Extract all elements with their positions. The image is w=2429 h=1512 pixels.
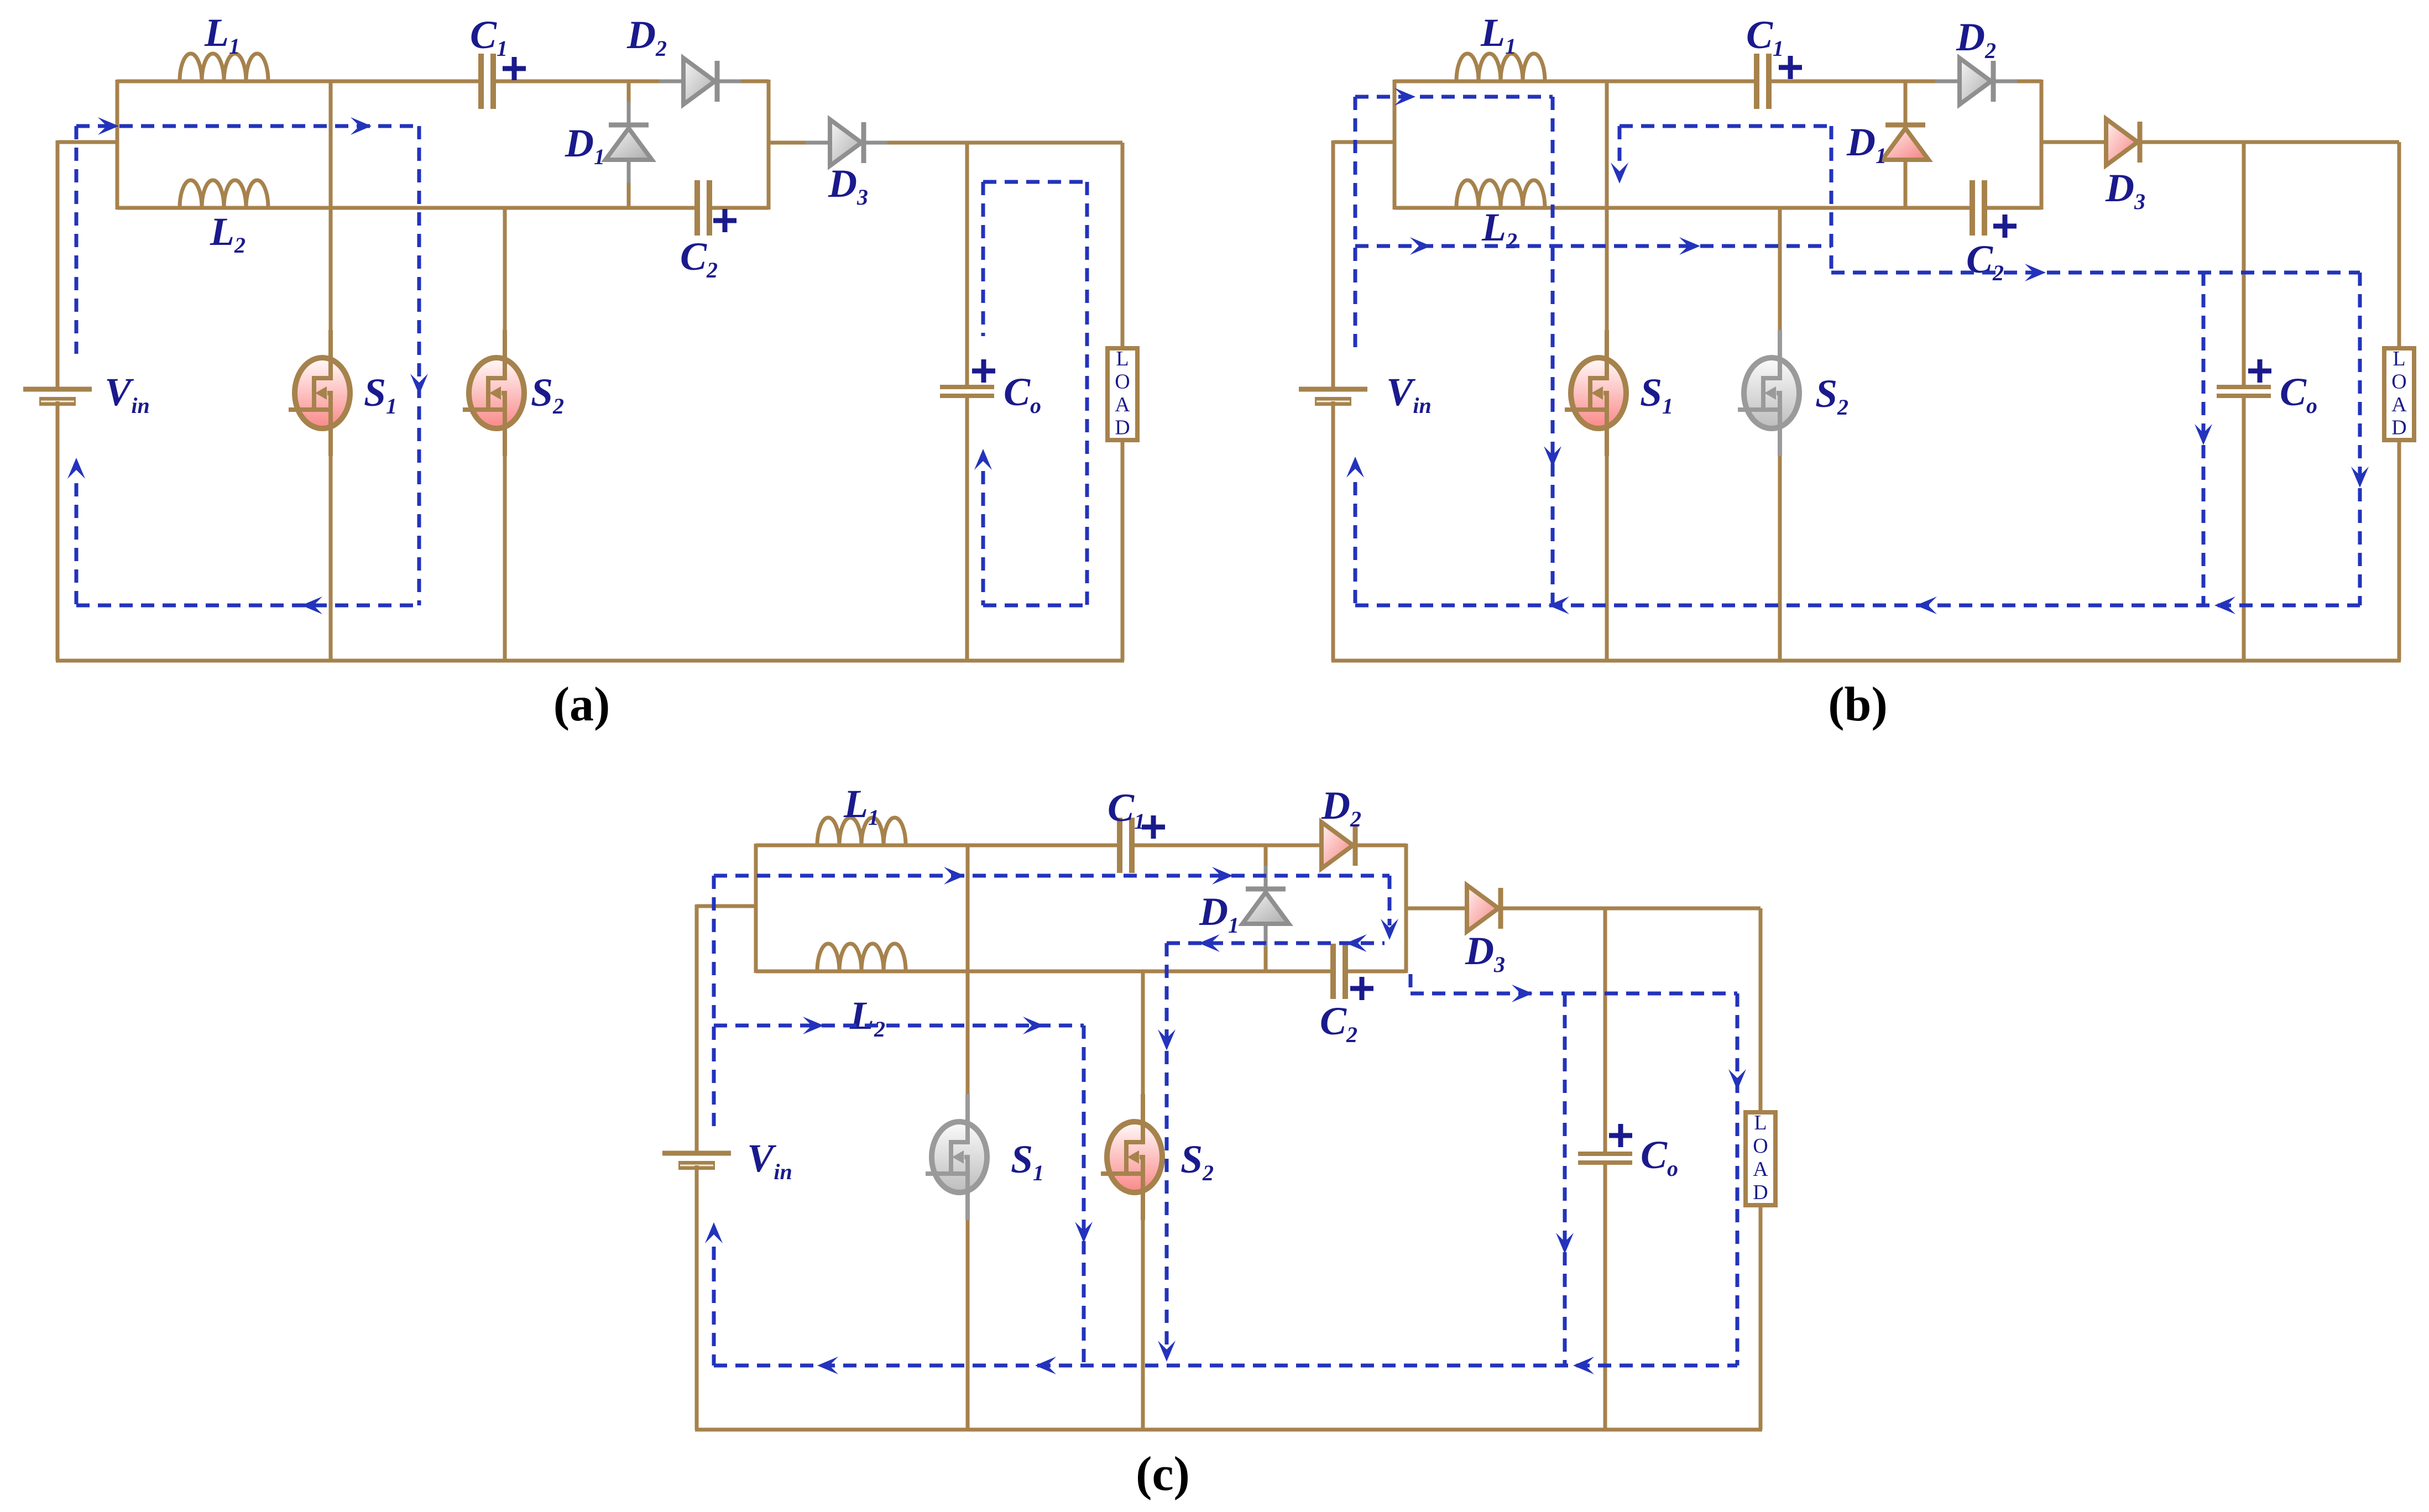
- arrow down left of Co: [1556, 1233, 1574, 1254]
- inductor L1: [817, 818, 906, 845]
- current path (a): loop right vertical through S1 region: [417, 126, 421, 605]
- wire: Vin vertical above battery: [56, 140, 60, 389]
- current path (b): vertical up to C1 row: [1830, 126, 1833, 273]
- arrow left on bottom return 2: [1035, 1357, 1056, 1374]
- capacitor C1: [1117, 818, 1122, 873]
- diode D2: [1297, 844, 1379, 847]
- capacitor Co: [2217, 385, 2271, 389]
- arrow right on top segment 2: [1212, 867, 1233, 885]
- wire: bottom rail: [56, 659, 1124, 663]
- current path (c): vertical right of load: [1736, 993, 1740, 1365]
- current path (b): segment under C1: [1620, 124, 1831, 128]
- svg-text:O: O: [1115, 370, 1130, 393]
- svg-text:A: A: [1115, 393, 1130, 416]
- svg-text:D: D: [1753, 1181, 1768, 1204]
- transistor S1: [295, 358, 350, 428]
- arrow down toward S1 node: [1611, 163, 1628, 184]
- diode D3: [1443, 907, 1524, 911]
- inductor L2: [180, 180, 268, 208]
- capacitor Co: [940, 385, 994, 389]
- svg-text:(b): (b): [1828, 678, 1888, 731]
- transistor S1: [932, 1122, 987, 1192]
- current path (b): top segment along L1: [1355, 95, 1553, 99]
- wire: Vin vertical below battery: [56, 401, 60, 661]
- arrow up on input vertical: [1346, 457, 1364, 478]
- svg-text:L: L: [1754, 1111, 1767, 1134]
- arrow right on S1 loop 2: [1023, 1017, 1044, 1034]
- wire: S2 branch vertical: [503, 208, 507, 378]
- current path (c): below C2 corner: [1409, 974, 1413, 993]
- current path (b): input left vertical upper segment: [1354, 97, 1357, 354]
- current path (a): output loop left vertical upper segment: [981, 182, 985, 336]
- wire: L2 row: [756, 970, 1333, 974]
- wire: left vertical of inductor loop: [116, 80, 119, 210]
- wire: Vin vertical below battery: [695, 1165, 699, 1430]
- current path (c): bottom return: [714, 1364, 1737, 1368]
- wire: Co branch vertical: [1603, 908, 1607, 1154]
- wire: S1 branch vertical: [329, 81, 333, 378]
- current path (b): bottom return: [1355, 604, 2360, 608]
- current path (a): output loop top: [983, 180, 1087, 184]
- wire: top rail right of C1: [493, 80, 769, 83]
- arrow down at corner: [1381, 919, 1398, 940]
- current path (a): output loop right vertical: [1085, 182, 1089, 605]
- svg-text:O: O: [2391, 370, 2406, 393]
- svg-text:L: L: [2393, 347, 2405, 370]
- wire: S2 branch vertical: [1141, 971, 1145, 1142]
- arrow down on right vertical: [410, 374, 428, 395]
- current path (b): L2 row path: [1355, 244, 1831, 248]
- load resistor LOAD: [1108, 348, 1137, 440]
- svg-text:A: A: [1753, 1158, 1768, 1181]
- current path (c): return row under D1: [1167, 941, 1385, 945]
- svg-text:D: D: [2391, 416, 2406, 439]
- polarity + of C2: [1350, 977, 1373, 1000]
- polarity + of C1: [503, 57, 526, 80]
- inductor L2: [817, 944, 906, 971]
- wire: L2 row: [117, 206, 697, 210]
- wire: left vertical of inductor loop: [1393, 80, 1397, 210]
- wire: load branch vertical: [1759, 908, 1763, 1112]
- transistor S2: [1107, 1122, 1162, 1192]
- arrow right on output row: [1512, 985, 1533, 1002]
- load resistor LOAD: [2384, 348, 2414, 440]
- wire: corner vertical after D2: [767, 80, 771, 210]
- current path (b): input left vertical lower segment: [1354, 482, 1357, 605]
- current path (b): vertical between loop and S1: [1551, 97, 1555, 605]
- wire: S1 branch vertical: [966, 845, 970, 1142]
- arrow right on top path 2: [351, 117, 372, 135]
- capacitor C2: [694, 180, 700, 236]
- wire: L2 row: [1394, 206, 1972, 210]
- arrow left on return row 2: [1199, 934, 1220, 952]
- arrow down on S2 branch: [1158, 1029, 1176, 1050]
- wire: load branch vertical: [1121, 143, 1125, 348]
- battery Vin: [1299, 387, 1367, 392]
- diode D3: [806, 141, 887, 145]
- arrow left on bottom return: [817, 1357, 838, 1374]
- wire: Vin vertical above battery: [695, 904, 699, 1153]
- current path (a): input loop top: [76, 124, 419, 128]
- arrow right on S1 loop: [803, 1017, 824, 1034]
- inductor L1: [180, 54, 268, 81]
- arrow down on S2 branch 2: [1158, 1341, 1176, 1362]
- battery Vin: [23, 387, 92, 392]
- wire: top rail right of C1: [1769, 80, 2041, 83]
- svg-text:(c): (c): [1136, 1447, 1190, 1501]
- capacitor C1: [478, 54, 484, 109]
- wire: bottom rail: [695, 1428, 1762, 1432]
- transistor S1: [1571, 358, 1626, 428]
- arrow right on L2 path: [1410, 237, 1431, 255]
- polarity + of Co: [972, 359, 995, 383]
- wire: Vin horizontal: [58, 140, 117, 144]
- svg-text:D: D: [1115, 416, 1130, 439]
- load resistor LOAD: [1746, 1112, 1775, 1205]
- transistor S2: [469, 358, 524, 428]
- diode D1: [627, 81, 631, 208]
- arrow down on S1 path: [1544, 446, 1561, 467]
- arrow right on L1 path: [1394, 88, 1415, 106]
- current path (c): input left vertical upper segment: [712, 876, 716, 1129]
- wire: bottom rail: [1331, 659, 2401, 663]
- wire: top rail right of C1: [1132, 844, 1406, 847]
- diode D2: [659, 80, 741, 83]
- arrow down on S1 loop: [1075, 1222, 1093, 1243]
- current path (a): output loop bottom: [983, 604, 1087, 608]
- arrow right on L2 path 2: [1679, 237, 1700, 255]
- current path (c): vertical left of Co: [1563, 993, 1567, 1365]
- arrow right on top segment: [944, 867, 965, 885]
- diode D1: [1264, 845, 1268, 971]
- polarity + of C2: [713, 209, 736, 232]
- arrow left on bottom return: [1548, 597, 1569, 614]
- arrow right on output row: [2025, 264, 2046, 281]
- capacitor C2: [1970, 180, 1975, 236]
- svg-text:O: O: [1753, 1134, 1768, 1158]
- wire: Vin horizontal: [697, 904, 756, 908]
- wire: top rail left segment with L1: [1394, 80, 1757, 83]
- current path (b): output row after C2: [1831, 271, 2360, 275]
- arrow right on top path: [98, 117, 119, 135]
- wire: S1 branch vertical: [1605, 81, 1609, 378]
- arrow up on output loop: [974, 449, 992, 470]
- current path (c): drop at corner: [1388, 876, 1392, 925]
- polarity + of C2: [1993, 214, 2017, 238]
- capacitor C1: [1754, 54, 1759, 109]
- current path (a): input loop left vertical lower segment: [75, 483, 79, 605]
- wire: Co branch vertical: [2242, 142, 2246, 387]
- inductor L1: [1456, 54, 1545, 81]
- arrow left on bottom return 2: [1916, 597, 1937, 614]
- arrow up on input loop: [67, 458, 85, 479]
- current path (c): S1 loop vertical: [1082, 1026, 1086, 1365]
- current path (c): S2 branch vertical: [1165, 943, 1169, 1353]
- arrow down through load path: [2351, 467, 2369, 488]
- wire: top rail left segment with L1: [117, 80, 481, 83]
- wire: corner vertical after D2: [2040, 80, 2044, 210]
- current path (c): top segment: [714, 874, 1390, 878]
- wire: corner vertical after D2: [1404, 844, 1408, 973]
- diode D3: [2082, 140, 2164, 144]
- current path (c): S1 loop top: [714, 1024, 1084, 1028]
- wire: output row through D3: [769, 141, 1122, 145]
- current path (b): short drop toward node: [1618, 126, 1622, 164]
- diode D2: [1935, 80, 2017, 83]
- wire: output row through D3: [2041, 140, 2399, 144]
- arrow up on input vertical: [705, 1222, 723, 1243]
- polarity + of Co: [2248, 359, 2271, 383]
- current path (b): vertical left of Co: [2202, 273, 2206, 605]
- wire: output row through D3: [1406, 907, 1761, 911]
- capacitor C2: [1330, 944, 1336, 999]
- arrow down left of Co: [2195, 424, 2212, 445]
- polarity + of C1: [1142, 815, 1165, 839]
- arrow left on bottom return 3: [2214, 597, 2235, 614]
- inductor L2: [1456, 180, 1545, 208]
- current path (a): input loop left vertical upper segment: [75, 126, 79, 354]
- wire: Vin vertical below battery: [1331, 401, 1335, 661]
- arrow left on return row: [1346, 934, 1367, 952]
- wire: load branch vertical: [2397, 142, 2401, 348]
- svg-text:(a): (a): [553, 678, 610, 731]
- arrow left on bottom return: [301, 597, 322, 614]
- current path (c): input left vertical lower segment: [712, 1247, 716, 1365]
- transistor S2: [1744, 358, 1799, 428]
- svg-text:L: L: [1116, 347, 1129, 370]
- current path (b): vertical right of Co: [2358, 273, 2362, 605]
- wire: S2 branch vertical: [1778, 208, 1782, 378]
- arrow left on bottom return 3: [1573, 1357, 1594, 1374]
- polarity + of Co: [1609, 1124, 1632, 1147]
- wire: left vertical of inductor loop: [754, 844, 758, 973]
- current path (a): loop bottom return: [76, 604, 419, 608]
- diode D1: [1904, 81, 1908, 208]
- wire: Vin vertical above battery: [1331, 140, 1335, 389]
- svg-text:A: A: [2391, 393, 2407, 416]
- arrow down right of load: [1728, 1069, 1746, 1090]
- battery Vin: [662, 1151, 731, 1156]
- capacitor Co: [1578, 1152, 1632, 1156]
- wire: top rail left segment with L1: [756, 844, 1120, 847]
- polarity + of C1: [1779, 56, 1802, 79]
- wire: Vin horizontal: [1333, 140, 1394, 144]
- wire: Co branch vertical: [965, 143, 969, 387]
- current path (a): output loop left vertical lower segment: [981, 471, 985, 605]
